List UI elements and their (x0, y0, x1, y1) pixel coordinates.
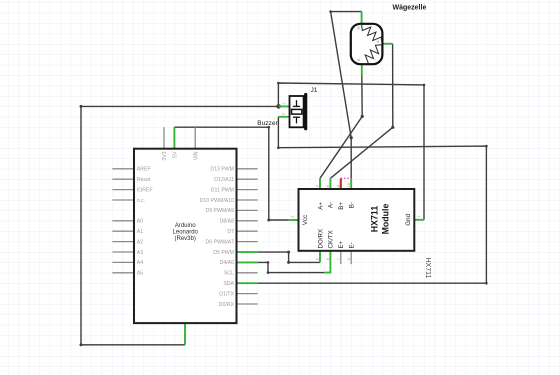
svg-text:A-: A- (376, 40, 380, 43)
svg-text:D9 PWM/A9: D9 PWM/A9 (205, 208, 234, 214)
svg-text:Wägezelle: Wägezelle (393, 4, 427, 11)
svg-text:3: 3 (316, 258, 320, 260)
svg-text:A2: A2 (137, 239, 143, 245)
svg-text:B-: B- (349, 202, 356, 208)
svg-text:D1/TX: D1/TX (219, 291, 234, 297)
svg-text:A1: A1 (137, 229, 143, 235)
svg-text:E+: E+ (338, 240, 345, 248)
svg-text:8: 8 (336, 185, 340, 187)
svg-text:A3: A3 (137, 250, 143, 256)
svg-text:4: 4 (316, 185, 320, 187)
svg-text:D10 PWM/A10: D10 PWM/A10 (200, 198, 234, 204)
svg-text:D7: D7 (227, 229, 234, 235)
svg-text:D0/RX: D0/RX (219, 302, 235, 308)
svg-text:D8/A8: D8/A8 (220, 219, 235, 225)
svg-text:2: 2 (290, 215, 294, 217)
svg-text:A4: A4 (137, 260, 143, 266)
svg-text:CK/TX: CK/TX (328, 230, 335, 248)
svg-text:HX711: HX711 (370, 206, 380, 233)
svg-text:9: 9 (347, 258, 351, 260)
svg-text:2: 2 (282, 113, 286, 115)
svg-text:(Rev3b): (Rev3b) (175, 236, 196, 242)
svg-text:A5: A5 (137, 271, 143, 277)
svg-text:B+: B+ (338, 202, 345, 210)
svg-text:Gnd: Gnd (405, 213, 412, 225)
svg-text:Leonardo: Leonardo (173, 230, 199, 236)
svg-text:D12/A11: D12/A11 (214, 177, 234, 183)
svg-text:A+: A+ (317, 202, 324, 210)
svg-text:5: 5 (326, 258, 330, 260)
svg-text:3V3: 3V3 (162, 151, 168, 160)
svg-text:VIN: VIN (193, 151, 199, 160)
svg-text:Vcc: Vcc (302, 215, 309, 225)
svg-text:5V: 5V (173, 151, 179, 158)
svg-text:E+: E+ (357, 25, 361, 29)
svg-text:DO/RX: DO/RX (317, 229, 324, 249)
svg-text:D6 PWM/A7: D6 PWM/A7 (205, 239, 234, 245)
svg-text:SDA: SDA (223, 281, 234, 287)
svg-text:n.c.: n.c. (137, 198, 145, 204)
svg-text:A0: A0 (137, 219, 143, 225)
svg-text:D13 PWM: D13 PWM (210, 167, 234, 173)
svg-text:10: 10 (347, 183, 351, 187)
svg-text:6: 6 (326, 185, 330, 187)
svg-text:A-: A- (328, 202, 335, 208)
svg-text:1: 1 (417, 215, 421, 217)
svg-text:E-: E- (349, 242, 356, 248)
svg-text:1: 1 (282, 103, 286, 105)
svg-text:J1: J1 (311, 87, 318, 94)
svg-text:Buzzer: Buzzer (257, 120, 278, 127)
svg-text:Module: Module (380, 204, 390, 235)
svg-text:AREF: AREF (137, 167, 151, 173)
svg-text:D5 PWM: D5 PWM (213, 250, 234, 256)
svg-text:IOREF: IOREF (137, 187, 153, 193)
svg-text:D4/A6: D4/A6 (220, 260, 235, 266)
svg-text:D11 PWM: D11 PWM (211, 187, 234, 193)
svg-text:E-: E- (357, 58, 361, 61)
svg-text:Reset: Reset (137, 177, 151, 183)
svg-text:Arduino: Arduino (175, 223, 196, 229)
svg-text:HX711: HX711 (424, 258, 431, 279)
svg-text:7: 7 (336, 258, 340, 260)
svg-text:SCL: SCL (224, 271, 234, 277)
